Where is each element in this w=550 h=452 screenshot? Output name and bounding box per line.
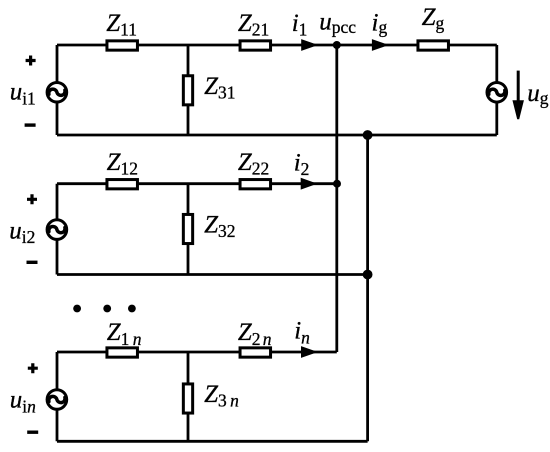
ellipsis dots xyxy=(73,305,136,313)
wire branch2 bottom rail xyxy=(57,273,368,276)
resistor Z21 xyxy=(238,10,271,50)
resistor Z22 xyxy=(238,149,271,189)
resistor Z31 xyxy=(183,73,235,105)
resistor Z1n xyxy=(107,319,142,357)
wire branch1 right xyxy=(495,45,498,135)
wire branchn bottom rail xyxy=(57,440,368,443)
wire pcc bus vertical xyxy=(335,45,338,352)
node i2 to pcc bus junction xyxy=(333,180,341,188)
resistor Z32 xyxy=(183,211,235,243)
resistor Zg xyxy=(418,4,449,50)
resistor Z2n xyxy=(238,319,272,357)
minus mark branch2 xyxy=(27,261,38,264)
ac source ug xyxy=(487,71,549,120)
plus mark branchn xyxy=(28,363,38,373)
resistor Z3n xyxy=(183,381,239,413)
plus mark branch1 xyxy=(26,56,36,66)
node upcc junction dot xyxy=(319,9,356,49)
minus mark branch1 xyxy=(25,123,36,126)
current arrow ig xyxy=(372,10,388,51)
resistor Z11 xyxy=(106,10,137,50)
wire branchn top rail xyxy=(57,351,337,354)
node return bus mid junction xyxy=(363,270,373,280)
resistor Z12 xyxy=(107,149,138,189)
ac source ui2 xyxy=(9,194,66,262)
wire branch1 left xyxy=(56,45,59,135)
wire branchn shunt stub xyxy=(187,352,190,441)
wire branchn left xyxy=(56,352,59,441)
ac source ui1 xyxy=(10,56,67,126)
minus mark branchn xyxy=(27,431,38,434)
plus mark branch2 xyxy=(27,194,37,204)
wire branch1 top rail xyxy=(57,44,497,47)
wire branch1 shunt stub xyxy=(187,45,190,135)
voltage arrow ug xyxy=(517,71,520,102)
wire branch2 left xyxy=(56,184,59,275)
wire return bus vertical xyxy=(366,135,369,441)
current arrow i1 xyxy=(292,10,315,51)
wire branch2 shunt stub xyxy=(187,184,190,275)
wire branch1 bottom rail xyxy=(57,134,497,137)
wire branch2 top rail xyxy=(57,182,337,185)
current arrow in xyxy=(294,318,315,358)
current arrow i2 xyxy=(294,149,315,189)
node return bus top junction xyxy=(363,130,373,140)
ac source uin xyxy=(10,363,67,432)
